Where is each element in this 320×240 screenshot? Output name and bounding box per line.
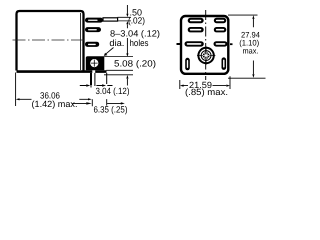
terminal pin 3 xyxy=(85,42,99,47)
dim 21.59 line + arrows xyxy=(184,85,227,87)
dim 36.06 extension line xyxy=(15,73,17,107)
vertical slot bottom left xyxy=(185,58,190,71)
svg-text:max.: max. xyxy=(243,46,259,55)
dim 5.08 bottom arrow xyxy=(126,79,128,86)
relay body side view xyxy=(17,11,84,71)
socket outline bottom view xyxy=(181,16,228,74)
left mounting tab xyxy=(177,43,182,45)
svg-text:6.35 (.25): 6.35 (.25) xyxy=(94,105,128,115)
right mounting tab xyxy=(230,43,233,45)
vertical slot bottom right xyxy=(222,57,227,70)
svg-text:3.04 (.12): 3.04 (.12) xyxy=(96,86,130,96)
slot row 3 right xyxy=(214,41,228,46)
slot row 1 right xyxy=(214,18,227,23)
socket vertical centerline xyxy=(205,10,207,80)
center hole assembly xyxy=(198,48,213,63)
dim 21.59 extension lines xyxy=(180,76,230,89)
svg-text:(.85) max.: (.85) max. xyxy=(185,87,228,97)
terminal pin 1 (top, with long blade) xyxy=(85,18,118,23)
extension lines for 3.04 dim xyxy=(90,73,92,85)
svg-text:dia.: dia. xyxy=(109,38,124,48)
blade extension lines xyxy=(118,17,132,21)
leader line for dia. holes xyxy=(106,48,114,54)
center hole crosshair xyxy=(197,46,215,65)
slot row 3 left xyxy=(185,41,204,46)
pcb top line continuation xyxy=(106,69,133,71)
dim 6.35 arrows xyxy=(72,102,121,104)
dim 27.94 extension lines xyxy=(228,15,266,78)
svg-text:(.02): (.02) xyxy=(128,16,145,26)
slot row 2 left xyxy=(188,27,204,32)
svg-text:holes: holes xyxy=(130,38,149,48)
extension ticks for 6.35 dim xyxy=(92,99,106,106)
dim 36.06 line + arrows xyxy=(19,98,88,100)
bracket hole circle xyxy=(90,58,99,67)
dim .50 vertical line with arrows xyxy=(126,5,128,57)
hole crosshair xyxy=(91,60,98,67)
centerline through body xyxy=(13,39,85,41)
terminal pin 2 xyxy=(85,27,101,32)
body inner edge line xyxy=(80,13,82,70)
dim 27.94 vertical + arrows xyxy=(252,19,254,75)
svg-text:5.08 (.20): 5.08 (.20) xyxy=(114,59,156,69)
mounting bracket block xyxy=(86,56,105,70)
slot row 1 left xyxy=(188,18,204,23)
svg-text:(1.42) max.: (1.42) max. xyxy=(32,99,78,109)
pcb bottom line xyxy=(104,74,133,76)
slot row 2 right xyxy=(214,27,227,32)
flange bottom thick line xyxy=(17,70,107,73)
bracket top extension line xyxy=(104,55,133,57)
dim 3.04 arrows xyxy=(80,85,113,87)
